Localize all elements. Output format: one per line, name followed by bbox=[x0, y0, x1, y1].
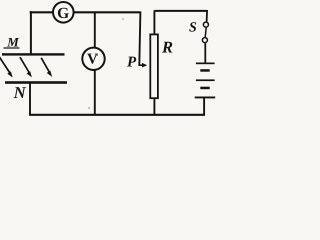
switch lever bbox=[205, 27, 206, 37]
wire N lead vertical down bbox=[29, 83, 31, 115]
battery cell1 short plate bbox=[200, 69, 209, 72]
label M underline bbox=[4, 47, 20, 49]
switch S terminal circle top bbox=[203, 22, 208, 27]
wire right vertical to switch bbox=[206, 10, 209, 22]
svg-text:N: N bbox=[13, 83, 27, 102]
plate N (bottom electrode) bbox=[5, 81, 67, 84]
svg-text:S: S bbox=[189, 20, 197, 35]
battery cell3 long plate bbox=[195, 97, 216, 99]
wire V-meter branch vertical bbox=[94, 12, 96, 115]
wire rheostat top lead bbox=[153, 11, 155, 35]
battery cell2 long plate bbox=[196, 79, 215, 81]
wire slider P horizontal with arrowhead into rheostat bbox=[139, 64, 144, 66]
voltmeter U=V circle bbox=[82, 48, 104, 70]
svg-text:R: R bbox=[161, 38, 173, 57]
light ray arrow 2 bbox=[20, 57, 32, 77]
svg-text:M: M bbox=[6, 34, 19, 49]
light ray arrow 3 bbox=[41, 58, 52, 77]
switch S terminal circle bottom bbox=[202, 38, 207, 43]
wire left vertical (down to plate M) bbox=[30, 11, 32, 54]
speck bottom middle bbox=[88, 107, 89, 108]
wire slider P vertical drop bbox=[139, 12, 140, 66]
svg-text:G: G bbox=[57, 5, 69, 22]
wire top-left horizontal (M lead to P corner) bbox=[30, 11, 141, 13]
galvanometer U=G circle bbox=[53, 2, 74, 23]
speck near V bbox=[97, 54, 99, 56]
wire switch to battery bbox=[204, 43, 206, 64]
svg-text:P: P bbox=[127, 54, 137, 70]
speck upper middle bbox=[122, 18, 123, 19]
svg-text:V: V bbox=[87, 52, 98, 68]
wire top-right horizontal bbox=[154, 10, 207, 12]
wire battery bottom lead bbox=[203, 98, 205, 115]
rheostat R body bbox=[150, 34, 158, 98]
light ray arrow 1 bbox=[0, 56, 13, 77]
wire rheostat bottom lead bbox=[153, 99, 155, 115]
plate M (top electrode) bbox=[2, 53, 65, 55]
battery cell2 short plate bbox=[200, 87, 209, 90]
battery cell1 long plate bbox=[196, 63, 215, 65]
wire bottom horizontal bbox=[29, 114, 205, 116]
